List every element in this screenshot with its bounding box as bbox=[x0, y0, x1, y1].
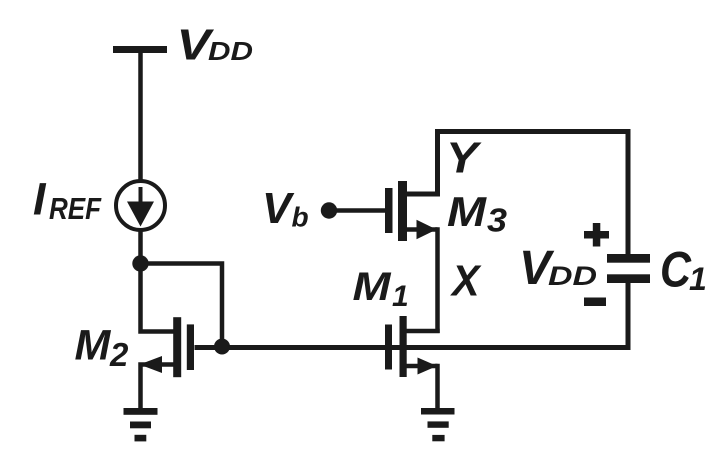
svg-text:M: M bbox=[353, 265, 393, 309]
svg-text:2: 2 bbox=[109, 336, 129, 373]
svg-text:1: 1 bbox=[392, 280, 409, 313]
svg-text:X: X bbox=[449, 257, 482, 306]
svg-text:1: 1 bbox=[689, 261, 707, 297]
svg-text:M: M bbox=[75, 322, 112, 370]
svg-text:DD: DD bbox=[548, 261, 597, 291]
svg-text:Y: Y bbox=[446, 134, 482, 183]
svg-text:M: M bbox=[447, 188, 487, 235]
svg-text:DD: DD bbox=[208, 36, 253, 66]
svg-text:I: I bbox=[33, 174, 47, 225]
svg-text:b: b bbox=[292, 202, 309, 233]
svg-text:3: 3 bbox=[487, 202, 507, 239]
svg-text:V: V bbox=[262, 184, 295, 233]
svg-text:REF: REF bbox=[49, 191, 102, 226]
svg-text:C: C bbox=[660, 242, 692, 298]
